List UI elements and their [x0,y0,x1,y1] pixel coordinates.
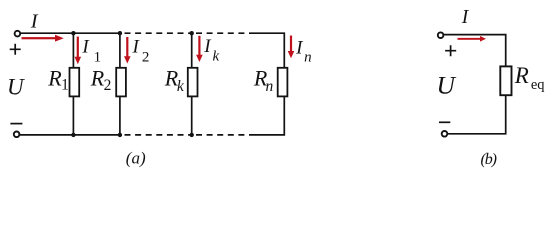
wire top dashed (Rk to Rn branch) [196,32,253,34]
wire bottom solid (terminal to R2) [20,134,120,136]
terminal top-right [438,32,444,38]
svg-text:I1: I1 [81,36,101,65]
svg-text:(b): (b) [481,151,497,168]
wire top (circuit b) [444,35,506,67]
svg-text:U: U [437,71,457,100]
junction dot top R1 [71,31,75,35]
svg-text:In: In [295,37,312,65]
svg-text:I: I [461,7,470,28]
wire bottom dashed (Rk to Rn branch) [196,134,253,136]
junction dot bottom R1 [71,133,75,137]
resistor Req [500,66,511,95]
junction dot bottom R2 [118,133,122,137]
terminal top-left [15,31,21,37]
junction dot top Rk [190,31,194,35]
wire branch Rk vertical [191,33,193,135]
wire branch R1 vertical [72,33,74,135]
junction dot top R2 [118,31,122,35]
svg-text:Rk: Rk [164,66,185,96]
minus sign (circuit b) [439,121,450,123]
svg-text:(a): (a) [126,149,146,168]
wire bottom (circuit b) [448,96,506,134]
current arrow I2 (red) [124,37,131,64]
current arrow Ik (red) [196,36,203,62]
svg-text:U: U [7,74,25,99]
wire top-right solid with corner to Rn [253,33,284,68]
current arrow I (red, circuit b) [458,36,487,42]
plus sign (circuit b) [445,45,456,56]
resistor R1 [70,68,80,97]
plus sign (circuit a) [10,44,21,55]
resistor R2 [116,68,126,97]
current arrow In (red) [288,36,295,59]
wire top solid (terminal to R2) [21,32,121,34]
svg-text:R1: R1 [47,66,69,94]
resistor Rk [188,68,198,97]
svg-text:I: I [30,11,39,33]
current arrow I1 (red) [75,37,82,65]
junction dot bottom Rk [190,133,194,137]
wire branch R2 vertical [119,33,121,135]
svg-text:I2: I2 [132,36,150,65]
svg-text:R2: R2 [90,66,112,94]
svg-text:Req: Req [514,63,545,93]
wire bottom dashed (R2 to Rk) [125,134,192,136]
terminal bottom-right [442,131,448,137]
svg-text:Rn: Rn [253,66,274,95]
wire top dashed (R2 to Rk) [125,32,192,34]
minus sign (circuit a) [10,123,22,125]
current arrow I (red, circuit a) [22,35,64,42]
svg-text:Ik: Ik [203,36,219,64]
wire bottom-right solid with corner to Rn [253,96,284,135]
resistor Rn [278,68,288,97]
terminal bottom-left [14,132,20,138]
